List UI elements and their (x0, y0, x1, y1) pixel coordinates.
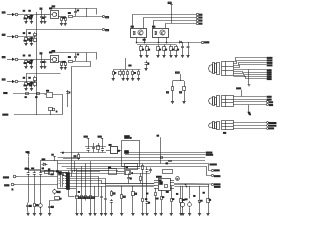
component FB1 (163, 163, 173, 174)
wire OSC in (29, 157, 41, 170)
wire row3 loop (72, 62, 91, 177)
node IN4 label (2, 79, 5, 80)
capacitor C31 (92, 143, 95, 153)
capacitor C21 (33, 171, 36, 177)
wire R44 top (180, 186, 182, 197)
node 1-5V label (176, 72, 181, 81)
wire audio top rail (28, 170, 118, 172)
wire net H3 (58, 164, 212, 171)
wire MIC to T1 (18, 176, 58, 178)
wire common bus (36, 12, 38, 115)
ground R44 (179, 214, 182, 216)
wire P2 pin4 (233, 104, 266, 106)
wire audio mid2 (94, 200, 96, 202)
ground C42 (188, 214, 191, 216)
wire fan SW2 (144, 18, 197, 29)
label R1b val2 (30, 17, 32, 20)
label R2b value (29, 32, 31, 35)
wire R51 gnd (111, 204, 113, 214)
wire R12 gnd (158, 52, 160, 56)
resistor R2f (34, 37, 37, 43)
resistor R4a (25, 82, 30, 87)
wire P1 pin6 (234, 72, 267, 73)
node net PB2D label (206, 154, 212, 155)
connector SW3 (196, 19, 202, 21)
ground R1g (64, 24, 67, 26)
capacitor C51 (110, 199, 113, 204)
transformer T1 (57, 171, 67, 189)
wire bank feed1 (81, 166, 83, 194)
label amp1 (147, 192, 148, 195)
node P1 net COM 4 (267, 76, 271, 77)
capacitor C3b (74, 53, 77, 62)
ground C52 (100, 214, 103, 216)
label amp6 (194, 194, 195, 197)
label amp7 (203, 191, 204, 194)
wire P1 pin8 (234, 76, 267, 77)
wire J4 to R4a (19, 81, 36, 83)
node P1 net COM 2 (267, 72, 271, 73)
wire +5V drop (241, 90, 243, 97)
wire U5 rpin4 (170, 188, 174, 190)
transistor Q1 (49, 108, 55, 116)
wire top net1 (67, 168, 141, 170)
node P1 net COM 1 (267, 70, 271, 71)
wire fan SW4 (166, 24, 197, 29)
resistor R52 (121, 193, 126, 200)
wire VCC drop (171, 7, 173, 24)
input arrow J4 (7, 81, 14, 83)
wire U4 in (106, 150, 110, 152)
wire C43 gnd (182, 207, 184, 214)
label R1a val2 (24, 17, 26, 20)
connector SW2 (196, 16, 202, 18)
label R3a val2 (24, 62, 26, 65)
ground R20 (171, 102, 174, 104)
resistor R45 wire gnd (208, 205, 210, 214)
label amp4 (176, 192, 177, 195)
wire C26 gnd (40, 207, 42, 214)
node MIC label (3, 177, 8, 178)
wire bank feed3 (90, 161, 92, 194)
wire rail drop (86, 8, 88, 17)
wire R46 gnd (155, 198, 157, 214)
wire C12 gnd (146, 67, 148, 69)
wire P2 pin1 (233, 96, 266, 98)
wire R6x gnd 138.5 (138, 76, 140, 78)
wire R4b gnd (31, 86, 33, 88)
ground C12 (144, 69, 147, 71)
wire bank feed0 (76, 169, 78, 194)
node bias 1-5V b (98, 136, 103, 146)
ground R6x 127.5 (126, 79, 129, 81)
wire amp out bus1 (174, 183, 211, 186)
resistor R41 (142, 196, 144, 204)
capacitor C32 (101, 147, 104, 153)
capacitor C26 (electrolytic) (39, 202, 43, 208)
wire P1 pin3 (234, 63, 267, 66)
input arrow J1 (7, 14, 14, 16)
component X5 (59, 172, 62, 175)
wire row2 out (27, 30, 103, 37)
ground R6x 123.2 (122, 79, 125, 81)
ground R53 (131, 214, 134, 216)
node P1 net COM 3 (267, 74, 271, 75)
capacitor C1b (74, 8, 77, 17)
wire TX (13, 93, 46, 95)
ground R12 (156, 56, 159, 58)
ground R1b (30, 22, 33, 24)
label B1 value (50, 7, 52, 10)
bridge rectifier B3 (51, 56, 59, 63)
node MOD label (62, 151, 65, 154)
resistor R1a (25, 15, 30, 20)
diode D6 wire gnd (199, 205, 201, 214)
resistor R44 (180, 197, 183, 205)
label R10 value (142, 48, 143, 51)
wire P3 pin1 (233, 122, 266, 124)
label C20 (25, 167, 29, 170)
wire C3a gnd (41, 64, 43, 66)
wire mid rail (63, 158, 80, 160)
label rail (52, 6, 55, 7)
wire J5 net2 (70, 177, 99, 197)
node TX label (4, 92, 7, 93)
ground C27 (48, 214, 51, 216)
wire R41 top (142, 171, 144, 196)
label C3b value (77, 53, 78, 56)
wire rail drop (86, 53, 88, 62)
wire J5 netC (76, 171, 100, 173)
wire P1 pin1 (234, 58, 267, 62)
label R1b value (29, 9, 31, 12)
label D6 value (201, 199, 202, 202)
resistor R2e (34, 32, 37, 37)
wire C1a gnd (41, 20, 43, 22)
wire P1 pin5 (234, 69, 267, 71)
component U6 box (109, 167, 117, 175)
ground R3a (24, 67, 27, 69)
wire J5 net3 (70, 179, 155, 186)
label R4b val2 (30, 84, 32, 87)
connector K3 out3 (211, 183, 220, 185)
resistor R63 (127, 70, 129, 77)
wire bank gnd x90.2 (90, 201, 92, 214)
wire R10 gnd (140, 52, 142, 56)
wire net PB2D (125, 154, 206, 156)
resistor R26 inline (36, 93, 40, 98)
node bias 1-5V a (84, 136, 89, 146)
wire R42 top (161, 190, 163, 194)
ground C41 (145, 214, 148, 216)
ground R2b (30, 44, 33, 46)
label AUX tick (11, 189, 14, 190)
wire AUX to T1 (16, 184, 58, 186)
label R2a val2 (24, 39, 26, 42)
label P3 note (224, 131, 226, 134)
connector J2 (15, 35, 19, 38)
resistor R61 (119, 70, 122, 77)
ground bank x90.2 (89, 214, 92, 216)
wire C10 gnd (182, 52, 184, 56)
component X3 box (125, 164, 138, 170)
node P3 net COB IN (267, 128, 274, 130)
wire T1 sec bot (67, 187, 69, 197)
wire J5 net7 (69, 188, 76, 190)
wire RX (14, 114, 63, 116)
wire R53 top (132, 186, 134, 190)
connector P2 (DIN socket) (209, 95, 234, 106)
wire R1g gnd (65, 21, 67, 23)
capacitor C10 (181, 42, 184, 52)
wire C11 gnd (188, 52, 190, 56)
wire net H1 (58, 157, 206, 159)
label R44 value (182, 198, 184, 201)
resistor R1c (61, 17, 63, 22)
wire U5 rpin2 (170, 182, 174, 184)
node P1 net COMP 3 (267, 62, 272, 63)
wire U2 pin7 (136, 38, 138, 43)
wire R14 gnd (170, 52, 172, 56)
wire C1e gnd (44, 20, 46, 22)
wire D6 top (199, 186, 201, 198)
wire X4 out (131, 173, 150, 175)
resistor R60 (113, 70, 115, 77)
wire C3e gnd (44, 64, 46, 66)
node net CHMKT label (210, 164, 216, 165)
wire bias bus (85, 146, 106, 148)
wire C43 (182, 186, 184, 202)
label C23 (42, 167, 44, 170)
wire C41 top (146, 174, 148, 199)
wire U3 pin5 (166, 38, 168, 43)
wire bank gnd x81.4 (81, 201, 83, 214)
label R15 value (177, 48, 178, 51)
wire R20 gnd (172, 96, 174, 102)
wire P2 pin2 (233, 99, 266, 101)
wire bus up2 (74, 161, 76, 172)
node P2 net SER 2 (267, 99, 271, 100)
ground C11 (186, 56, 189, 58)
label R2b val2 (30, 39, 32, 42)
capacitor C42 (188, 201, 192, 207)
diode D3b (30, 59, 33, 64)
wire C42 top (189, 186, 191, 199)
resistor R32 (85, 194, 91, 201)
wire R52 top (121, 186, 123, 193)
resistor R50 (140, 173, 142, 183)
wire bank gnd x95.0 (94, 201, 96, 214)
ground bank x77.0 (75, 214, 78, 216)
capacitor C41 wire gnd (146, 206, 148, 214)
component X2 (125, 151, 129, 154)
wire to bridge B1 (36, 14, 50, 16)
wire bank gnd x77.0 (76, 201, 78, 214)
diode D1b (30, 15, 33, 20)
ground C53 (104, 214, 107, 216)
connector P2 out3 (266, 103, 268, 105)
label R13 value (165, 48, 166, 51)
diode D5 (179, 41, 181, 43)
node net PB2C label (206, 152, 212, 153)
node PSI1 (157, 135, 161, 163)
resistor R13 driver (163, 45, 166, 52)
capacitor C11 (187, 42, 190, 52)
wire R3c gnd (61, 66, 63, 68)
node P2 net SER 1 (267, 96, 271, 97)
ground R52 (120, 214, 123, 216)
wire U5 lpin2 (154, 182, 158, 184)
resistor R43 (171, 196, 173, 204)
wire bridge out (58, 16, 66, 18)
wire P2 shield drop (248, 105, 250, 112)
capacitor C52 branch (100, 186, 103, 214)
label C20 value (25, 167, 26, 170)
label R1d value (68, 12, 70, 15)
resistor R53 (132, 190, 137, 197)
ground R21 (182, 102, 185, 104)
wire C27 top (50, 201, 60, 204)
label R3c value (63, 60, 65, 63)
ground C26 (39, 214, 42, 216)
wire P1 pin9 (234, 77, 267, 79)
ground R14 (169, 56, 172, 58)
wire bias bottom (60, 152, 106, 154)
wire J1 to R1a (19, 14, 36, 16)
wire U2 pin5 (144, 38, 146, 43)
wire R6x gnd 132.7 (132, 76, 134, 78)
wire U5 lpin4 (154, 188, 158, 190)
label R3d value (68, 56, 70, 59)
connector BYSW (201, 41, 208, 43)
capacitor C1a (40, 15, 43, 20)
capacitor C42 wire gnd (189, 208, 191, 214)
label R43 value (172, 198, 173, 201)
label C1b value (77, 9, 78, 12)
resistor R11 driver (146, 45, 149, 52)
ground R4a (24, 89, 27, 91)
resistor R43 wire gnd (171, 204, 173, 214)
node out4 label (214, 186, 220, 187)
ground R3b (30, 67, 33, 69)
wire P1 pin2 (234, 61, 267, 64)
label D3 (40, 53, 42, 59)
label C1a value (43, 17, 44, 20)
resistor R3g (65, 62, 67, 67)
resistor R24 (34, 202, 38, 209)
connector K2 out2 (211, 174, 220, 176)
component H2 mark (169, 161, 172, 162)
wire drive bus2 (137, 44, 176, 46)
wire P1 shield drop (248, 70, 250, 85)
resistor R35 (97, 143, 100, 153)
node AUX label (5, 185, 9, 186)
wire P3 pin3 (233, 128, 266, 130)
power +12V (26, 152, 30, 156)
node dot a (136, 42, 137, 43)
ground R6x 132.7 (131, 79, 134, 81)
wire J5 net1 (69, 173, 124, 175)
label B3 value (50, 51, 52, 54)
label 1k2 (143, 38, 145, 41)
wire U5 rpin1 (170, 180, 174, 182)
wire R2a gnd (26, 42, 28, 44)
wire to bridge B3 (36, 59, 50, 61)
resistor R25 inline (25, 93, 29, 98)
ground R42 (160, 214, 163, 216)
wire FL1 out (53, 95, 63, 115)
resistor R46 (155, 191, 157, 198)
input arrow J2 (7, 36, 14, 38)
label R45 value (209, 198, 210, 201)
ground C43 (181, 214, 184, 216)
wire row4 out (27, 74, 61, 82)
capacitor C24 (electrolytic) (53, 189, 60, 195)
bridge rectifier B1 (51, 11, 59, 19)
component X4 (125, 171, 133, 175)
wire R13 gnd (164, 52, 166, 56)
connector SW1 (196, 13, 202, 15)
resistor R4f (34, 82, 37, 88)
wire C25 gnd (27, 209, 30, 214)
component OSC box (41, 161, 58, 172)
wire U6 out (116, 171, 124, 173)
node dot e (185, 184, 186, 185)
node dot f (186, 186, 187, 187)
ground C1e (43, 22, 46, 24)
capacitor C1e (43, 15, 46, 20)
wire audio mid (69, 196, 75, 198)
capacitor C30 (87, 147, 90, 153)
label C21 value (32, 167, 34, 170)
ground R1c (60, 24, 63, 26)
transistor Q2 (176, 177, 180, 181)
wire U4 out (117, 150, 121, 152)
node P1 net COMP 2 (267, 60, 272, 61)
wire bridge out (58, 61, 66, 63)
wire U5 lpin3 (154, 185, 158, 187)
wire drive bus (137, 42, 201, 44)
label C41 value (148, 201, 149, 204)
resistor R33 (90, 194, 95, 201)
label amp3 (166, 190, 168, 193)
resistor R45 (207, 197, 210, 205)
filter FL1 (45, 90, 53, 97)
wire R52 gnd (121, 200, 123, 214)
connector J3 (15, 58, 19, 61)
label R14 value (172, 48, 173, 51)
label R42 value (162, 196, 163, 199)
node P1 net COMP 4 (267, 65, 272, 66)
label R12 value (159, 48, 160, 51)
input arrow J3 (7, 58, 14, 60)
ground C3a (40, 67, 43, 69)
wire C21 gnd (34, 177, 36, 202)
wire net H2 (58, 160, 206, 162)
connector P2 out2 (266, 100, 268, 102)
component X6 (63, 172, 67, 175)
wire amp out bus3 (174, 184, 209, 186)
wire J2 to R2a (19, 36, 36, 38)
connector P1 (DIN socket) (209, 61, 234, 75)
component Y1 (48, 169, 53, 175)
label led2 (134, 72, 135, 75)
resistor R64 (132, 70, 134, 77)
node P1 net COM G (267, 79, 271, 80)
node P1 net COMP 1 (267, 57, 272, 58)
wire fan SW3 (154, 21, 197, 29)
node dot c (158, 42, 159, 43)
